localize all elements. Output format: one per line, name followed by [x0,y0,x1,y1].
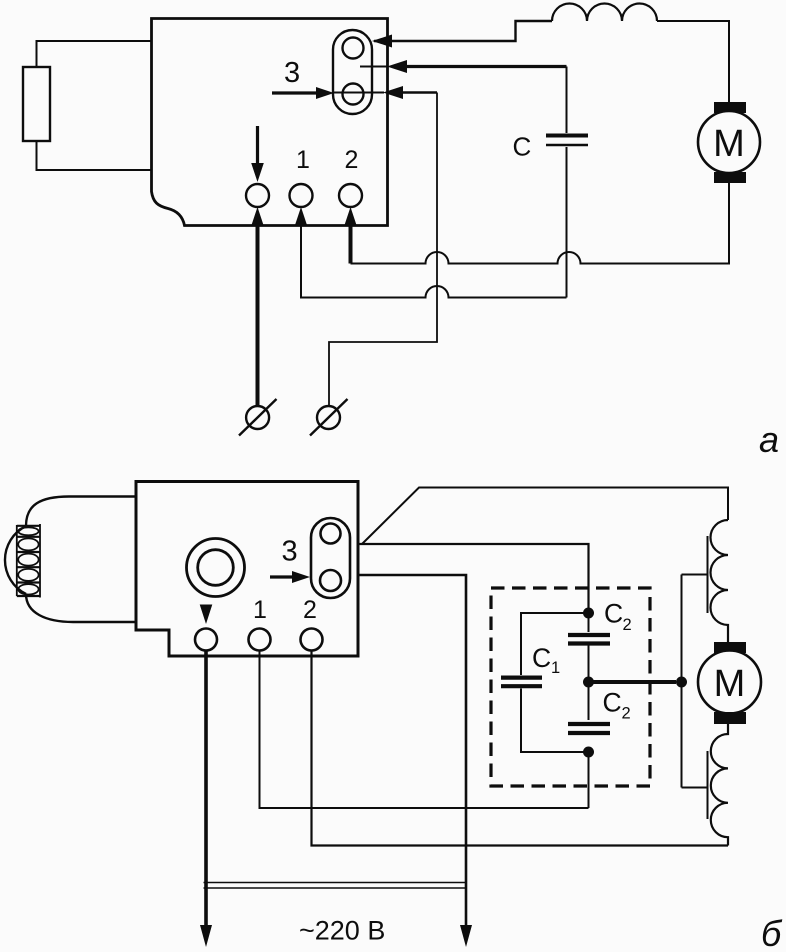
arrow 3 pointing right at oval (b) [270,575,295,578]
core bar top coil [707,536,709,613]
terminal circle arrow (left) [246,184,269,207]
core bar bottom coil [707,751,709,819]
capacitor C2 top bottom lead to mid node [588,646,590,683]
arrow 3 pointing right at oval [272,91,319,94]
field coil L2 bottom (three humps) [711,724,728,846]
wire R1 top to switch block [37,41,152,67]
mid node dot [583,677,594,688]
capacitor C2 bottom plates [568,722,610,726]
knob outer circle [187,539,245,597]
motor M brush bottom (diagram b) [714,712,746,724]
plug contact X2 [317,406,340,429]
oval contact hole bottom (b) [320,570,341,591]
junction dot bottom (C1 / C2 bottom) [583,747,594,758]
wire arrow1 into oval (from inductor branch) [374,21,552,41]
wire arrow-terminal down to plug 1 [256,224,260,406]
svg-text:б: б [761,913,783,952]
up arrowhead into terminal 2 [344,207,357,226]
plug contact X1 [246,406,269,429]
terminal circle 2 [339,184,362,207]
cord grommet spring dome [5,526,26,594]
svg-text:2: 2 [345,146,359,174]
motor M body (diagram a) [698,111,760,173]
handle housing (left rounded body) [26,497,136,623]
wire oval-bottom to mains (vertical x=466) [358,575,466,928]
mains arrowhead left [200,925,212,947]
wire arrow3 into oval [334,92,384,94]
capacitor C1 plates [501,675,542,679]
C1 branch top wire [521,613,589,675]
oval contact hole top (b) [321,524,341,544]
mains cable double line [204,882,467,884]
terminal circle 1 (b) [249,629,271,651]
wire inductor to motor top [657,21,729,102]
wire diagonal branch to field coil top [362,488,728,545]
motor M brush bottom (diagram a) [714,172,746,183]
svg-text:C: C [603,688,622,718]
capacitor C2 top plates [568,633,610,637]
tap wire top coil [682,574,708,576]
contact oval (stadium) on S1 [333,30,372,114]
wire arrow-terminal down to mains (b) [204,650,208,928]
wire oval-top to capacitors (horizontal y=544) [358,544,589,613]
wire terminal 2 down [349,224,353,264]
svg-text:M: M [714,663,746,705]
mains arrowhead right [460,925,472,947]
up arrowhead into terminal 1 [295,207,308,226]
capacitor C plates [546,134,588,138]
switch block S1 body (diagram b) [136,482,358,657]
wire R1 bottom to switch block [37,141,152,170]
thick tap wire from mid node to coils tap [589,680,677,684]
svg-text:C: C [532,643,551,673]
svg-text:1: 1 [296,146,310,174]
C2 bottom lead down to terminal1 wire [588,752,590,808]
svg-text:C: C [604,599,623,629]
capacitor C2 top lead [588,613,590,632]
svg-text:1: 1 [551,659,560,677]
up arrowhead into arrow-terminal [251,207,264,226]
knob inner circle [198,550,234,586]
svg-text:3: 3 [282,536,298,568]
svg-text:2: 2 [622,705,631,723]
svg-text:2: 2 [623,616,632,634]
svg-text:C: C [513,132,532,162]
contact oval (diagram b) [311,518,350,598]
svg-text:3: 3 [284,57,300,89]
terminal circle arrow (b) [195,629,217,651]
wire motor bottom to terminal 2 line with hops [351,183,730,264]
wire terminal1 down and right to capacitor mid lead [260,650,589,808]
dashed capacitor unit box [491,588,650,786]
cord grommet spring body [17,524,40,598]
field coil L1 top (three humps) [711,520,729,642]
wire terminal1 to capacitor bottom with hop [301,225,567,298]
resistor R1 (heating element loop, left) [23,67,50,141]
capacitor C bottom lead to terminal1 line [566,147,568,298]
svg-text:2: 2 [303,596,317,624]
oval contact hole bottom [343,84,364,105]
svg-text:1: 1 [253,596,267,624]
motor M brush top (diagram a) [714,102,746,113]
motor M body (diagram b) [698,651,761,714]
junction dot top (C2 top / C1) [583,608,594,619]
svg-text:а: а [759,419,779,460]
capacitor C top lead [566,67,568,134]
junction dot at capacitor tap [676,677,687,688]
tap vertical wire joining both coils [681,575,683,788]
capacitor C2 bottom mid lead [588,682,590,720]
svg-text:M: M [713,123,745,165]
wire terminal2 down and right to field coil bottom end [312,650,729,846]
terminal circle 1 [290,184,313,207]
inductor L1 (three humps top) [552,4,657,22]
motor M brush top (diagram b) [714,642,746,653]
wire arrow2 into oval (capacitor branch) [360,66,388,68]
oval contact hole top [343,38,364,59]
switch block S1 body (diagram a) [152,19,388,226]
terminal circle 2 (b) [301,629,323,651]
C1 bottom wire to lower node [521,689,589,753]
svg-text:~220 В: ~220 В [299,916,385,946]
down arrow above arrow-terminal [256,126,259,165]
wire node-3 vertical to plug 2 [329,93,437,407]
down arrow above arrow-terminal (b) [200,605,213,625]
tap wire bottom coil [682,787,708,789]
